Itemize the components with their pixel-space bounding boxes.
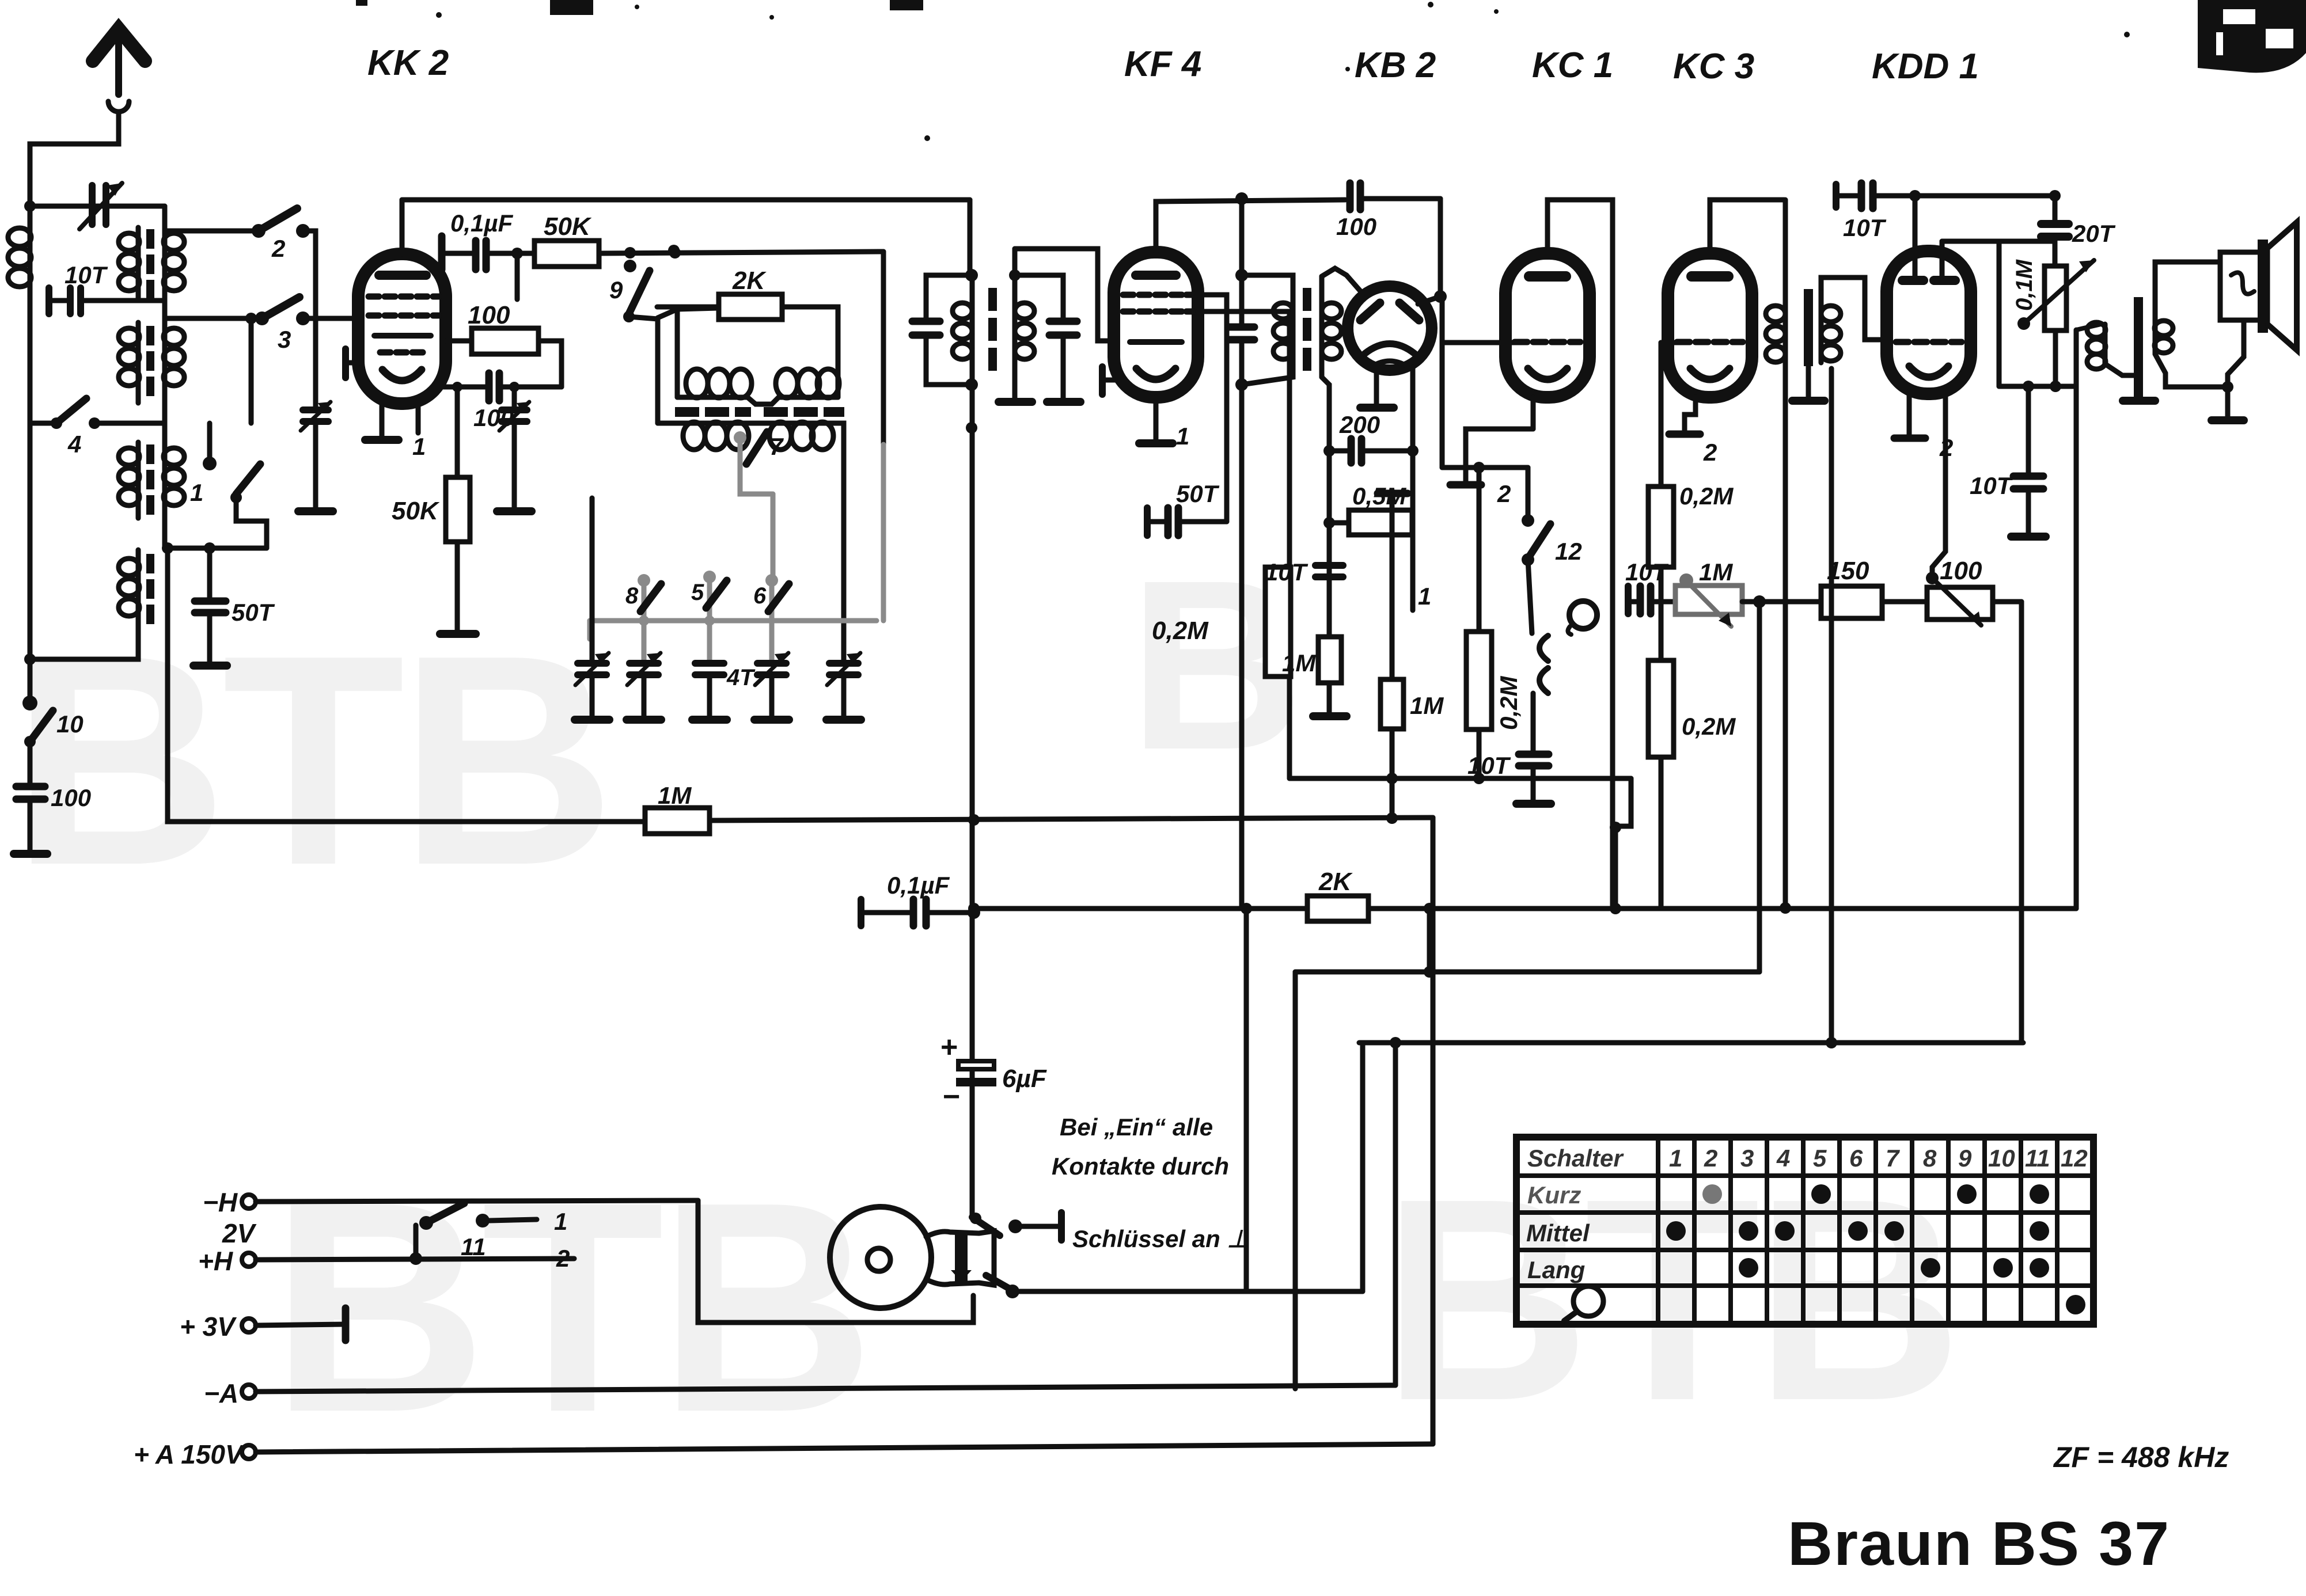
- svg-text:4: 4: [1776, 1145, 1790, 1172]
- ground jack: [1516, 800, 1551, 808]
- IFT1 right winding: [1012, 249, 1018, 400]
- svg-text:9: 9: [609, 276, 623, 303]
- logo top right: [2198, 0, 2306, 73]
- svg-text:Kurz: Kurz: [1527, 1181, 1581, 1209]
- svg-text:50K: 50K: [392, 497, 440, 525]
- svg-text:6: 6: [753, 583, 767, 609]
- wire antenna down-left: [30, 113, 119, 206]
- pilot lamp: [1569, 601, 1597, 629]
- KF4 cathode lead + ground: [1154, 397, 1159, 441]
- more groups follow: [346, 200, 970, 720]
- KDD1 anode bars: [1902, 276, 1924, 285]
- svg-text:2: 2: [556, 1245, 570, 1272]
- IFT3 core solid: [1804, 289, 1813, 366]
- svg-text:1: 1: [412, 433, 426, 460]
- resistor 100 (KK2): [446, 339, 472, 344]
- svg-text:2V: 2V: [222, 1218, 257, 1248]
- output secondary: [2153, 311, 2158, 354]
- switch 3: [165, 316, 262, 321]
- scan noise specks top edge: [356, 0, 2130, 141]
- KC1 grid dashes: [1515, 339, 1580, 345]
- jack contacts: [1528, 560, 1532, 633]
- switch 8: [640, 584, 661, 611]
- KF4 inner line: [1130, 339, 1182, 345]
- potentiometer 100: [1927, 587, 1993, 620]
- svg-text:Bei „Ein“ alle: Bei „Ein“ alle: [1060, 1114, 1213, 1141]
- output transformer core: [2134, 297, 2143, 404]
- capacitor 0.1uF lower: [858, 899, 864, 926]
- resistor 2K: [657, 305, 719, 310]
- switch 10: [22, 696, 37, 710]
- wire switch4 to secondary: [94, 421, 165, 426]
- KC1 grid lead: [1442, 340, 1520, 345]
- node A1: [24, 200, 36, 212]
- core dashes lower: [146, 444, 154, 624]
- svg-text:1: 1: [554, 1208, 567, 1235]
- svg-text:Lang: Lang: [1527, 1256, 1585, 1283]
- svg-text:0,2M: 0,2M: [1152, 617, 1209, 645]
- wire cathode row: [443, 385, 486, 390]
- KB2 grid loop corner down: [1440, 297, 1445, 468]
- svg-text:4T: 4T: [726, 665, 756, 690]
- KB2 top right corner: [1438, 199, 1443, 297]
- IFT1 core dashes: [988, 288, 997, 371]
- node down from pot junction: [1757, 602, 1762, 972]
- switch 6: [768, 584, 789, 611]
- capacitor 100 bottom left: [16, 786, 45, 799]
- long vertical right: [2074, 330, 2079, 909]
- ground 1M: [1313, 712, 1347, 720]
- IFT2 left winding: [1242, 275, 1293, 385]
- wire 1352 row: [1289, 776, 1631, 781]
- vertical IFT3 right to 1811: [1829, 368, 1834, 1043]
- trimmer under sw2 col: [313, 318, 318, 409]
- svg-text:Mittel: Mittel: [1526, 1219, 1590, 1247]
- svg-text:10T: 10T: [65, 261, 108, 288]
- KK2 grid dashes row3: [380, 349, 423, 356]
- oscillator transformer core dashes: [675, 407, 844, 417]
- svg-text:50K: 50K: [544, 212, 592, 241]
- svg-text:7: 7: [769, 433, 784, 460]
- svg-text:5: 5: [1813, 1145, 1827, 1172]
- tube KDD1: [1887, 251, 1971, 394]
- svg-text:Schalter: Schalter: [1527, 1145, 1624, 1172]
- capacitor 100 (KK2 cathode): [489, 373, 499, 401]
- left winding lower: [119, 442, 139, 518]
- wire KDD1 anode to 20T chain: [1942, 239, 2055, 244]
- wire from 2K node down: [1427, 909, 1432, 972]
- ground 10T output: [2011, 533, 2046, 541]
- switch 11: [409, 1252, 422, 1265]
- KDD1 filter vertical: [1783, 200, 1788, 908]
- svg-text:0,2M: 0,2M: [1682, 713, 1736, 740]
- KC3 anode bar: [1691, 271, 1728, 282]
- svg-text:100: 100: [1336, 213, 1376, 240]
- svg-text:1M: 1M: [1410, 692, 1444, 719]
- svg-text:10T: 10T: [1843, 214, 1887, 241]
- KK2 bottom left lead: [380, 400, 385, 438]
- tube KK2: [358, 254, 446, 404]
- svg-text:8: 8: [625, 583, 639, 609]
- svg-text:11: 11: [461, 1233, 486, 1260]
- switch 4: [30, 421, 56, 426]
- resistor 50K vertical: [455, 387, 460, 477]
- IFT1 left tuning cap branch: [926, 275, 972, 320]
- tube KC1: [1505, 253, 1590, 397]
- switch9 wire down to bottom winding: [655, 319, 661, 423]
- svg-text:50T: 50T: [1176, 480, 1220, 507]
- svg-text:0,1M: 0,1M: [2012, 259, 2037, 311]
- wire grid KK2: [303, 316, 359, 321]
- IFT3 grid path to KDD1: [1821, 278, 1887, 340]
- IFT3 right winding: [1819, 288, 1824, 363]
- KC1 top loop: [1548, 200, 1613, 908]
- trimmer capacitor C1: [92, 185, 106, 225]
- svg-text:0,1µF: 0,1µF: [450, 210, 514, 237]
- switch 7: [746, 432, 767, 464]
- speaker: [2220, 252, 2267, 320]
- oscillator transformer bottom winding: [658, 421, 829, 426]
- KK2 grid dashes row1: [369, 294, 439, 300]
- KK2 grid dashes row2: [369, 313, 439, 319]
- svg-text:6: 6: [1849, 1145, 1863, 1172]
- chassis bar KC1: [1450, 481, 1481, 489]
- speaker output transformer: [2076, 324, 2101, 330]
- KB2 bottom right lead: [1410, 367, 1416, 610]
- tube KB2: [1348, 286, 1432, 370]
- svg-text:200: 200: [1339, 411, 1380, 438]
- svg-text:10T: 10T: [1265, 558, 1308, 586]
- ground IFT3 core: [1792, 397, 1825, 405]
- oscillator transformer left vertical: [675, 307, 680, 397]
- wire to cap 100: [28, 742, 33, 785]
- potentiometer 1M: [1675, 586, 1742, 614]
- KDD1 cathode arc: [1909, 366, 1948, 377]
- wire right winding to trimmer column: [829, 423, 844, 662]
- IFT2 left vertical (AVC line): [1239, 199, 1245, 326]
- svg-text:0,2M: 0,2M: [1679, 482, 1734, 510]
- wire 50K line corner down: [881, 252, 886, 444]
- resistor 0.5M: [1329, 520, 1349, 526]
- ground under 50T: [194, 662, 227, 670]
- svg-text:0,2M: 0,2M: [1495, 676, 1522, 730]
- node KK2 grid2: [516, 252, 518, 254]
- IFT1 main vertical (to 6uF chain): [968, 200, 973, 275]
- wire top of input tank: [30, 204, 165, 209]
- capacitor 10T (KB2): [1315, 565, 1343, 577]
- KB2 electrodes: [1360, 303, 1380, 320]
- KK2 top lead: [400, 200, 405, 254]
- KF4 cathode terminal: [1099, 367, 1106, 394]
- anode bus KK2: [402, 197, 970, 203]
- svg-text:BTB: BTB: [1382, 1138, 1957, 1460]
- svg-text:KC 3: KC 3: [1673, 47, 1754, 86]
- capacitor 10T (KDD1 top): [1833, 184, 1840, 207]
- IFT2 right winding down to divider chain: [1322, 377, 1329, 714]
- svg-text:1: 1: [190, 479, 203, 506]
- ground IFT1 cap: [1047, 398, 1080, 406]
- key switch enclosure: [698, 1200, 973, 1323]
- svg-text:−H: −H: [203, 1187, 238, 1217]
- KK2 cathode arc: [382, 370, 422, 381]
- svg-text:2: 2: [1497, 480, 1511, 507]
- switch 5: [706, 580, 727, 608]
- bottom single coil: [30, 550, 139, 659]
- key switch upper contact: [972, 1217, 1000, 1236]
- capacitor 200: [1329, 449, 1348, 454]
- wire 2K row long: [974, 906, 2076, 911]
- left winding mid: [119, 322, 139, 403]
- capacitor 10T (output): [2026, 386, 2031, 474]
- key switch lower contact: [986, 1275, 1011, 1290]
- KF4 grid dashes row2: [1123, 309, 1193, 315]
- svg-text:0,1µF: 0,1µF: [887, 872, 950, 899]
- wire down to 1M line: [168, 548, 645, 822]
- svg-text:10: 10: [56, 710, 84, 738]
- svg-text:1M: 1M: [658, 782, 692, 809]
- svg-text:KC 1: KC 1: [1532, 45, 1613, 85]
- oscillator transformer top winding: [677, 397, 838, 404]
- svg-text:+: +: [940, 1031, 957, 1064]
- svg-text:1: 1: [1176, 423, 1189, 450]
- svg-text:2: 2: [271, 235, 285, 262]
- table row labels: [1526, 1181, 1590, 1283]
- KC3 grid lead: [1661, 340, 1682, 345]
- ground IFT1 right winding: [999, 398, 1032, 406]
- right winding mid: [164, 328, 184, 386]
- svg-text:3: 3: [1740, 1145, 1754, 1172]
- KC3 cathode arc: [1690, 368, 1729, 379]
- table dots Mittel row: [1666, 1221, 2049, 1241]
- svg-text:−A: −A: [204, 1378, 238, 1408]
- resistor 50K horizontal: [534, 241, 599, 267]
- svg-text:12: 12: [2061, 1145, 2088, 1172]
- svg-text:50T: 50T: [232, 599, 275, 626]
- svg-text:6µF: 6µF: [1002, 1065, 1047, 1093]
- capacitor in AVC line: [1229, 327, 1254, 340]
- wire 1811 row: [1359, 1040, 2023, 1046]
- switch 9: [624, 260, 636, 272]
- capacitor 10T (volume tap): [1625, 586, 1632, 614]
- KC3 cathode lead to chassis: [1685, 397, 1696, 432]
- capacitor 50T (KF4): [1144, 508, 1151, 535]
- svg-text:3: 3: [278, 326, 291, 353]
- svg-text:10T: 10T: [1467, 752, 1511, 779]
- tube KF4: [1114, 252, 1198, 397]
- svg-text:100: 100: [1940, 557, 1982, 585]
- svg-text:2: 2: [1704, 1145, 1717, 1172]
- KK2 anode bar: [379, 271, 426, 280]
- capacitor 10T (jack): [1519, 754, 1549, 766]
- resistor 150: [1821, 586, 1882, 618]
- svg-text:1M: 1M: [1699, 558, 1733, 586]
- table dots Lang row: [1739, 1258, 2049, 1278]
- svg-text:KF 4: KF 4: [1124, 44, 1201, 84]
- svg-text:1M: 1M: [1282, 649, 1316, 677]
- long vertical from 100 pot: [2019, 602, 2024, 1043]
- svg-text:100: 100: [468, 301, 510, 329]
- ground output transformer: [2123, 397, 2155, 405]
- tube KC3: [1668, 253, 1752, 397]
- resistor 1M horizontal: [645, 808, 710, 834]
- potentiometer 0.1M vertical: [2045, 266, 2066, 330]
- KC1 cathode arc: [1528, 368, 1567, 379]
- wire sw3 down: [249, 318, 254, 423]
- antenna: [93, 29, 145, 94]
- wire node down: [515, 253, 520, 299]
- svg-text:ZF = 488 kHz: ZF = 488 kHz: [2053, 1441, 2229, 1473]
- svg-text:100: 100: [51, 784, 91, 811]
- svg-text:7: 7: [1886, 1145, 1900, 1172]
- table magnifier symbol: [1573, 1286, 1603, 1316]
- wire IFT1 to KF4 grid: [1015, 249, 1114, 341]
- wire to ground: [28, 801, 33, 851]
- svg-text:1: 1: [1418, 583, 1431, 610]
- resistor 0.2M (lower): [1648, 660, 1674, 757]
- resistor 0.2M (KC1) vertical: [1477, 468, 1482, 632]
- IFT3 left winding loops: [1766, 306, 1785, 362]
- IFT1 left winding loops: [953, 303, 972, 359]
- wire row 812: [1442, 465, 1528, 470]
- svg-text:12: 12: [1555, 538, 1582, 565]
- wire left column: [28, 206, 33, 703]
- wire 1M line to right: [710, 818, 1433, 820]
- KF4 cathode arc: [1136, 368, 1175, 379]
- right winding upper (secondary): [164, 206, 184, 423]
- wire 1688 row: [1295, 970, 1759, 975]
- KF4 screen leads: [1198, 295, 1227, 522]
- KB2 frown arc: [1365, 344, 1414, 354]
- table header texts: [1527, 1145, 2088, 1172]
- KK2 cathode terminal left: [342, 349, 349, 378]
- svg-text:11: 11: [2025, 1145, 2050, 1172]
- core dashes upper: [146, 229, 154, 299]
- capacitor 10T: [51, 298, 67, 303]
- KC1 anode bar: [1529, 271, 1566, 282]
- node: [511, 248, 523, 259]
- svg-text:4: 4: [67, 431, 81, 458]
- KC3 top loop: [1710, 200, 1784, 256]
- KDD1 top leads: [1913, 196, 1918, 276]
- svg-text:Schlüssel an ⊥: Schlüssel an ⊥: [1072, 1225, 1248, 1252]
- wire jack to 10T cap: [1531, 693, 1536, 752]
- wire 671 row: [1999, 384, 2076, 389]
- node left col: [24, 653, 36, 665]
- IFT2 right winding: [1319, 276, 1325, 377]
- antenna lead hook: [108, 101, 129, 112]
- svg-text:Kontakte durch: Kontakte durch: [1052, 1153, 1229, 1180]
- wire row 952: [165, 546, 267, 551]
- KK2 inner anode line: [374, 333, 431, 339]
- KB2 bottom left lead + ground: [1374, 368, 1379, 405]
- ground under 50K: [440, 630, 476, 638]
- svg-text:+ A 150V: + A 150V: [134, 1439, 245, 1469]
- table dots Kurz row: [1702, 1184, 2049, 1204]
- trimmer capacitor bank: [575, 498, 609, 720]
- svg-text:10: 10: [1988, 1145, 2015, 1172]
- key switch rotor: [830, 1207, 931, 1308]
- resistor 0.2M (KF4 screen): [1265, 567, 1291, 677]
- trimmer column x893: [512, 387, 517, 409]
- svg-text:2K: 2K: [1318, 868, 1353, 896]
- capacitor 50T left: [207, 548, 213, 599]
- svg-text:10T: 10T: [1970, 472, 2013, 499]
- svg-text:2K: 2K: [732, 267, 767, 295]
- IFT2 core dashes: [1303, 288, 1311, 371]
- right winding lower: [164, 423, 184, 548]
- svg-text:−: −: [942, 1080, 959, 1114]
- svg-text:2: 2: [1703, 439, 1717, 466]
- switch 2: [165, 229, 259, 234]
- svg-text:8: 8: [1923, 1145, 1937, 1172]
- svg-text:Braun BS 37: Braun BS 37: [1788, 1508, 2170, 1578]
- IFT2 grid jog to KB2: [1322, 268, 1363, 294]
- KDD1 bottom left lead + ground: [1907, 392, 1912, 436]
- svg-text:1: 1: [1669, 1145, 1682, 1172]
- ground: [14, 850, 47, 858]
- switch table frame: [1516, 1137, 2093, 1324]
- svg-text:5: 5: [691, 580, 704, 605]
- svg-text:BTB: BTB: [12, 593, 610, 928]
- IFT1 right cap branch: [1015, 275, 1063, 320]
- svg-text:BTB: BTB: [271, 1140, 869, 1475]
- switch 1: [207, 423, 213, 463]
- wire node to osc transformer left: [673, 250, 678, 253]
- capacitor 20T: [2041, 224, 2069, 237]
- oscillator band coils block: left winding upper: [119, 227, 139, 299]
- AVC vertical lower segment: [1244, 909, 1249, 1291]
- ground KK2: [365, 436, 399, 444]
- core dashes mid: [146, 326, 154, 396]
- svg-text:10T: 10T: [1625, 558, 1669, 586]
- bus cap 100 (KB2): [1350, 183, 1360, 210]
- KDD1 bottom right lead to 100 pot: [1932, 392, 1945, 578]
- 1M second vertical with T-top: [1378, 490, 1408, 497]
- svg-text:KB 2: KB 2: [1355, 45, 1436, 85]
- KF4 top lead + bus: [1156, 200, 1345, 252]
- KC3 grid dashes: [1677, 339, 1743, 345]
- resistor 1M vertical (KB2 grid): [1318, 637, 1341, 683]
- svg-text:20T: 20T: [2072, 220, 2116, 247]
- svg-text:+H: +H: [198, 1246, 233, 1276]
- KC1 cathode lead to chassis: [1531, 397, 1536, 427]
- svg-text:+ 3V: + 3V: [180, 1312, 237, 1342]
- KF4 anode bar: [1136, 271, 1176, 280]
- table dot last row: [2066, 1295, 2085, 1314]
- KDD1 grid dashes: [1896, 339, 1962, 345]
- capacitor 0.1uF: [476, 241, 486, 269]
- svg-text:9: 9: [1958, 1145, 1972, 1172]
- gray selector bus: [590, 431, 877, 639]
- cap 10T left terminal: [45, 288, 52, 314]
- KK2 pin 1: [416, 401, 421, 433]
- switch 12: [1526, 468, 1531, 520]
- cap 0.1uF terminal: [438, 236, 446, 269]
- KF4 grid dashes row1: [1123, 292, 1193, 298]
- resistor 2K lower: [1307, 896, 1368, 921]
- svg-text:KDD 1: KDD 1: [1872, 47, 1979, 86]
- svg-text:KK 2: KK 2: [367, 43, 449, 83]
- wire 0.2M lower down: [1659, 757, 1664, 909]
